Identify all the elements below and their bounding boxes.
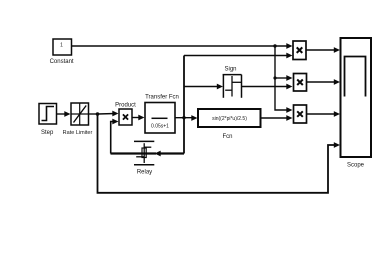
svg-text:Step: Step bbox=[41, 130, 54, 136]
wire x2 to Scope bbox=[307, 79, 341, 85]
block Constant bbox=[53, 39, 72, 55]
svg-text:Constant: Constant bbox=[50, 59, 74, 65]
node junction constant feed bbox=[273, 44, 276, 47]
wire to x2 in1 bbox=[275, 75, 293, 81]
svg-text:Relay: Relay bbox=[137, 170, 152, 176]
node junction x2 feed bbox=[273, 76, 276, 79]
svg-text:Scope: Scope bbox=[347, 163, 365, 169]
wire x1 to Scope bbox=[306, 47, 340, 53]
block multiply x1 bbox=[293, 41, 306, 60]
wire Sign to x2 in2 bbox=[242, 84, 293, 90]
block Fcn bbox=[198, 109, 261, 127]
block multiply x2 bbox=[294, 74, 307, 92]
block Product bbox=[119, 109, 132, 125]
block Relay bbox=[134, 141, 154, 164]
svg-text:Rate Limiter: Rate Limiter bbox=[63, 130, 93, 136]
block Transfer Fcn bbox=[145, 103, 175, 134]
svg-text:sin((2*pi*u)/2.5): sin((2*pi*u)/2.5) bbox=[212, 116, 247, 122]
wire Rate Limiter to Product in1 bbox=[89, 111, 119, 117]
wire Step to Rate Limiter bbox=[57, 111, 71, 117]
svg-text:Product: Product bbox=[115, 103, 136, 109]
wire Product to Transfer Fcn bbox=[132, 115, 145, 121]
block Scope bbox=[341, 38, 372, 157]
wire feedback vertical bbox=[183, 56, 185, 154]
wire Relay to Product in2 bbox=[111, 119, 119, 154]
block multiply x3 bbox=[294, 105, 307, 123]
wire feedback to Relay bbox=[111, 151, 185, 157]
svg-text:Sign: Sign bbox=[224, 67, 236, 73]
node junction feedback tap bbox=[182, 116, 185, 119]
svg-text:0.05s+1: 0.05s+1 bbox=[151, 124, 169, 130]
wire x3 to Scope bbox=[307, 111, 341, 117]
wire to x1 in2 bbox=[184, 53, 293, 59]
block Rate Limiter bbox=[71, 103, 89, 125]
svg-text:Transfer Fcn: Transfer Fcn bbox=[145, 95, 179, 101]
block Sign bbox=[223, 75, 242, 98]
svg-text:1: 1 bbox=[60, 43, 63, 49]
block Step bbox=[39, 104, 57, 125]
wire Transfer Fcn to Fcn bbox=[175, 115, 198, 121]
wire Fcn to x3 in2 bbox=[261, 115, 293, 121]
node junction step signal tap bbox=[96, 112, 100, 116]
wire constant feed vertical bbox=[275, 46, 293, 113]
svg-text:Fcn: Fcn bbox=[222, 134, 232, 140]
wire bottom loop to Scope in4 bbox=[98, 114, 341, 193]
wire to Sign input bbox=[184, 84, 223, 90]
wire Constant to x1 in1 bbox=[72, 43, 293, 49]
